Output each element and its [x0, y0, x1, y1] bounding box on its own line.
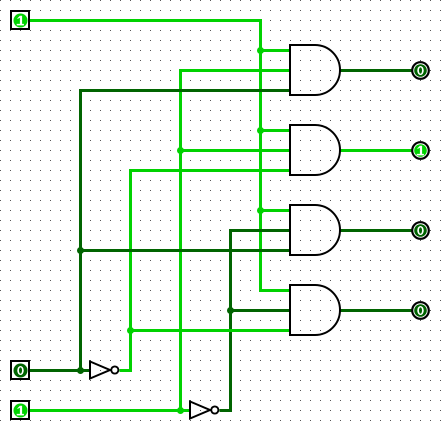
node junction (130,330) [127, 327, 134, 334]
node junction (230,310) [227, 307, 234, 314]
input pin C value 1 [11, 401, 29, 419]
wire gate4 input y=290 [259, 289, 291, 292]
wire gate3 input y=230 [229, 229, 291, 232]
wire input A horizontal y=20 [30, 19, 263, 22]
wire gate4 output y=310 [341, 309, 413, 312]
wire gate3 input y=250 [81, 249, 291, 252]
wire gate4 input y=330 [131, 329, 291, 332]
wire input C y=410 [30, 409, 191, 412]
output pin Q4 value 0 [412, 302, 429, 319]
input pin A value 1 [11, 11, 29, 29]
wire gate2 input y=150 [181, 149, 291, 152]
wire gate1 output y=70 [341, 69, 413, 72]
wire gate1 input y=50 [261, 49, 291, 52]
node junction (180,150) [177, 147, 184, 154]
wire gate2 output y=150 [341, 149, 413, 152]
wire gate4 input y=310 [231, 309, 291, 312]
node junction (80,370) [77, 367, 84, 374]
wire gate3 output y=230 [341, 229, 413, 232]
wire net B vertical x=80 [79, 91, 82, 371]
wire gate1 input y=90 [79, 89, 291, 92]
output pin Q3 value 0 [412, 222, 429, 239]
AND gate U2 [290, 125, 340, 175]
input pin B value 0 [11, 361, 29, 379]
AND gate U1 [290, 45, 340, 95]
inverter NOT1 [90, 362, 118, 379]
wire net A vertical x=260 [259, 21, 262, 291]
wire gate1 input y=70 [179, 69, 291, 72]
wire inverter1 output y=370 [120, 369, 133, 372]
node junction (260,130) [257, 127, 264, 134]
wire gate2 input y=170 [129, 169, 291, 172]
wire net NOT-B vertical x=130 [129, 171, 132, 371]
node junction (180,410) [177, 407, 184, 414]
node junction (260,210) [257, 207, 264, 214]
AND gate U4 [290, 285, 340, 335]
node junction (260,50) [257, 47, 264, 54]
wire net NOT-C vertical x=230 [229, 231, 232, 411]
wire net C vertical x=180 [179, 71, 182, 411]
wire inverter2 output y=410 [220, 409, 233, 412]
wire input B y=370 [30, 369, 91, 372]
node junction (80,250) [77, 247, 84, 254]
wire gate2 input y=130 [261, 129, 291, 132]
inverter NOT2 [190, 402, 218, 419]
output pin Q2 value 1 [412, 142, 429, 159]
wire gate3 input y=210 [261, 209, 291, 212]
AND gate U3 [290, 205, 340, 255]
output pin Q1 value 0 [412, 62, 429, 79]
